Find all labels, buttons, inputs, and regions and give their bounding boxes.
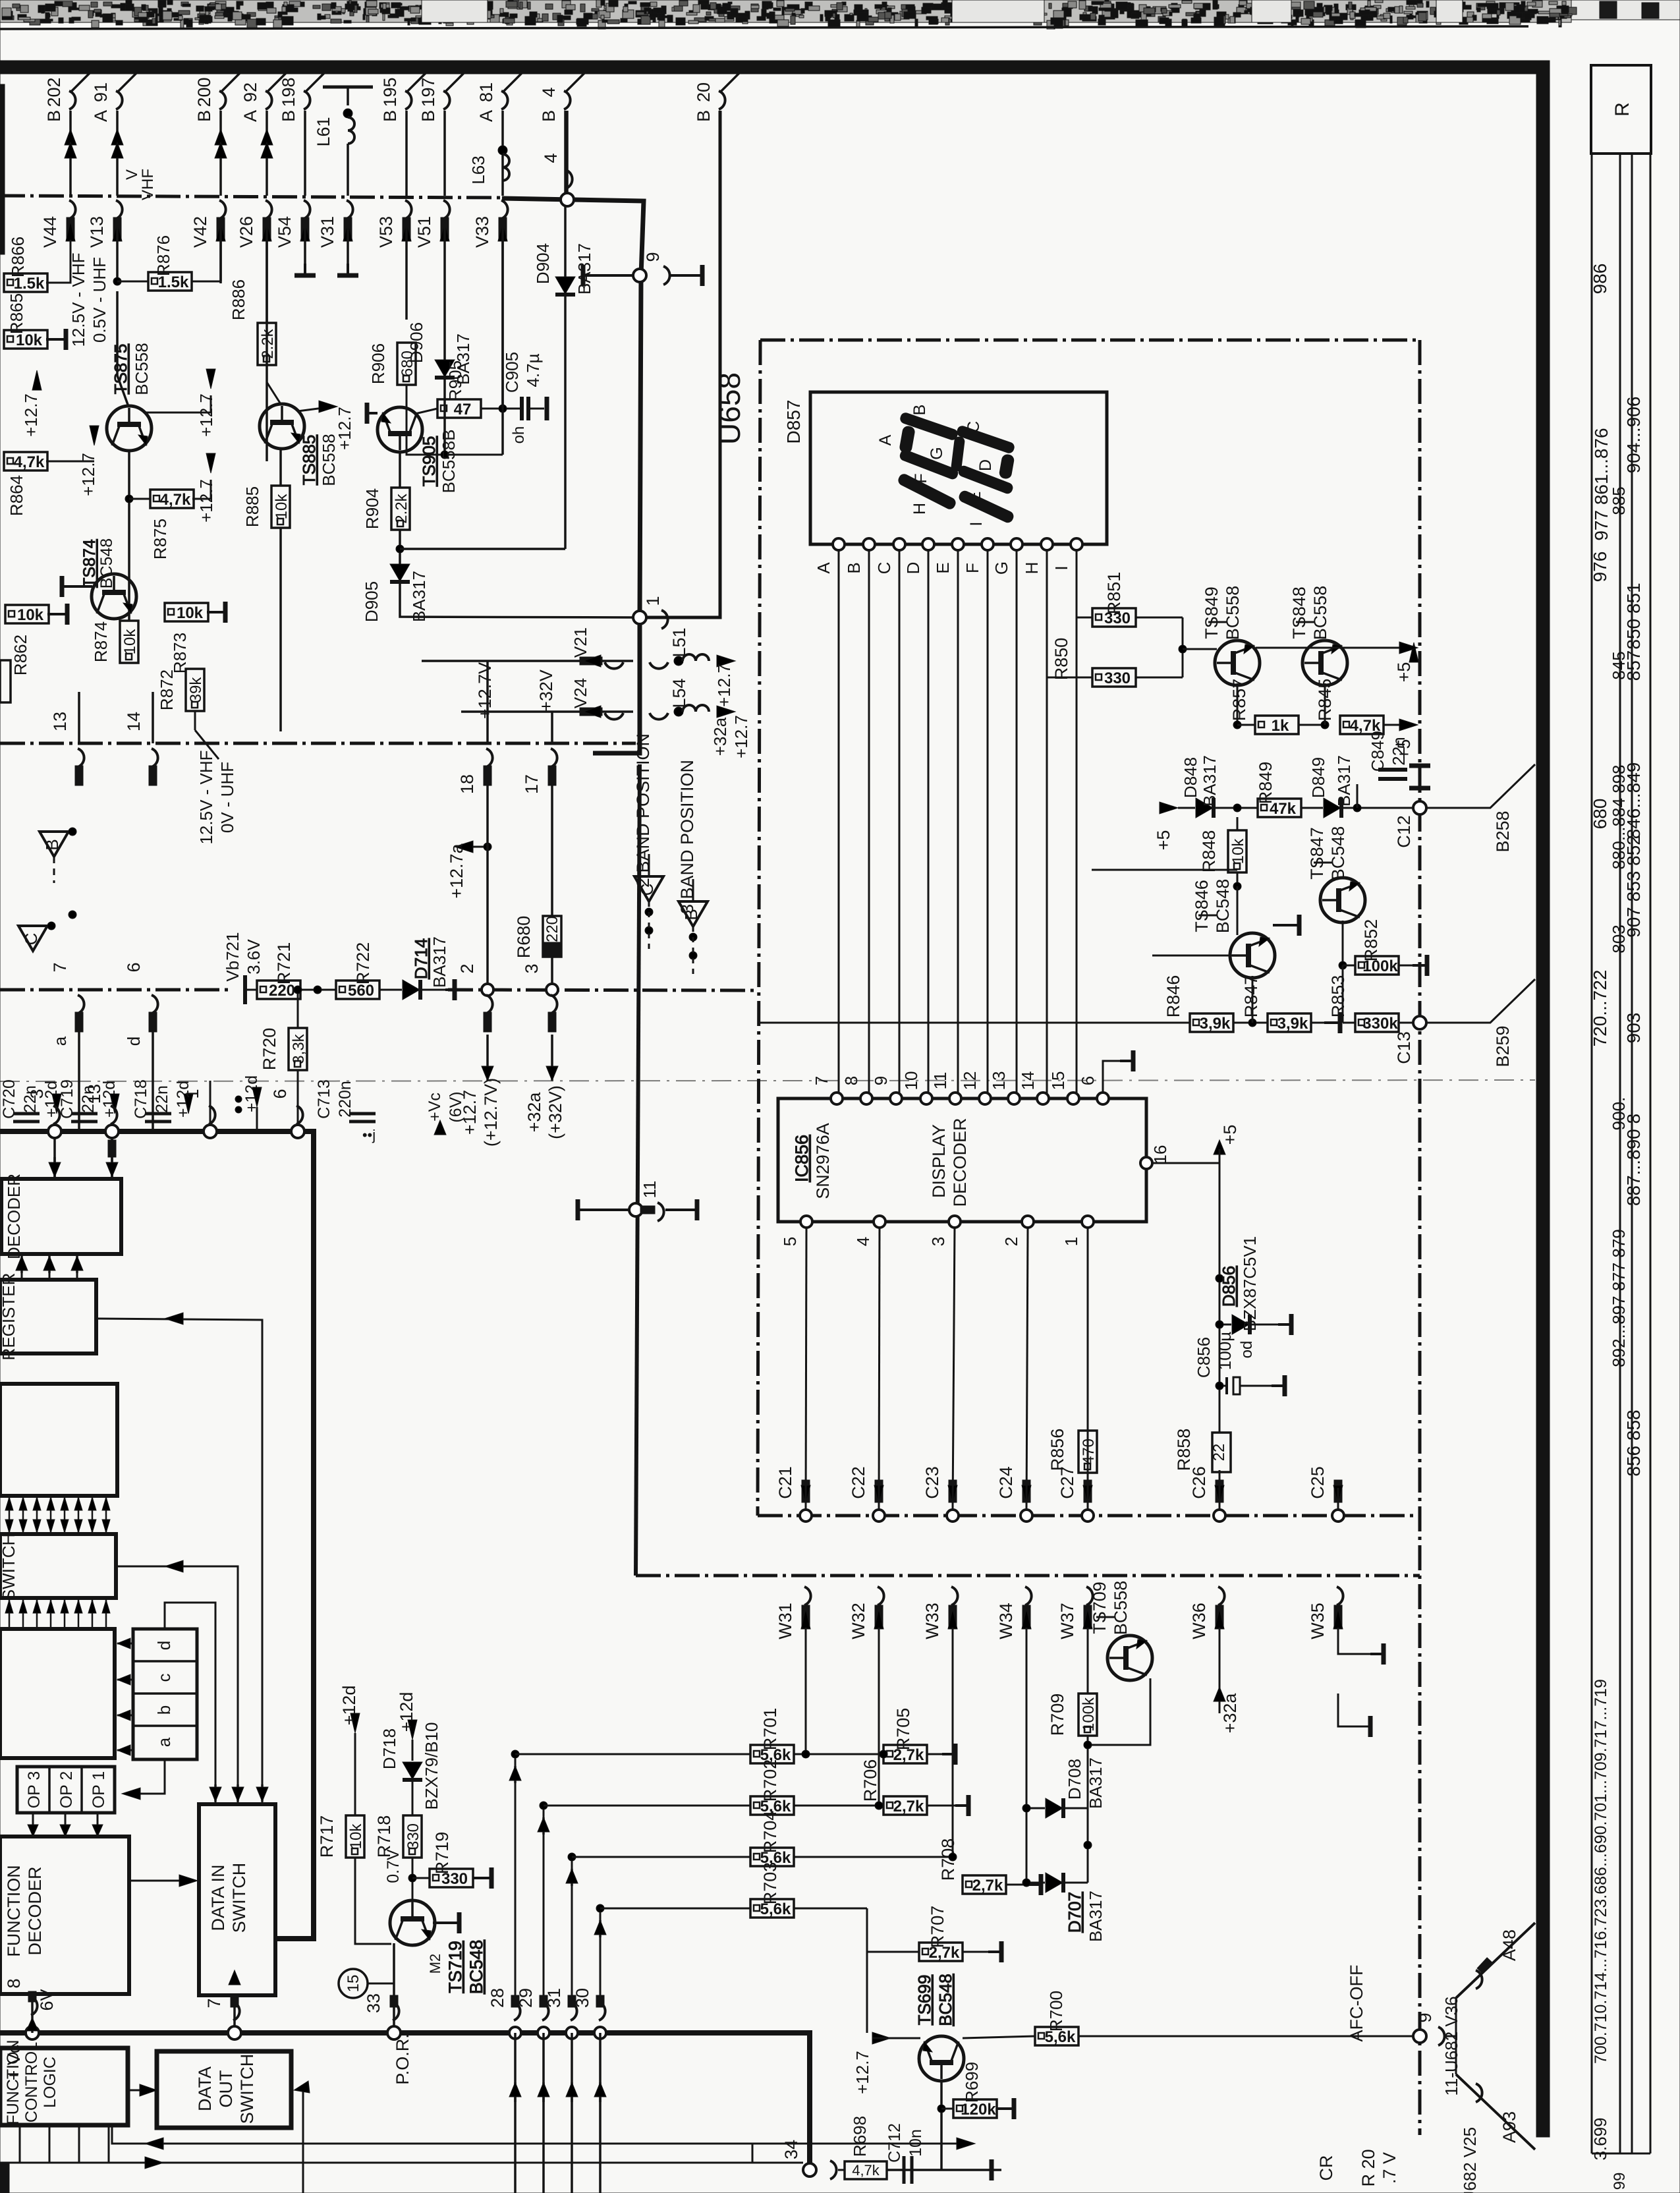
svg-text:TS849: TS849 — [1202, 586, 1221, 639]
svg-text:DATA: DATA — [195, 2066, 215, 2111]
svg-text:4: 4 — [853, 1237, 873, 1246]
connector B 202 — [70, 70, 93, 92]
svg-text:A: A — [91, 110, 111, 122]
block B — [0, 1629, 115, 1758]
R905 47 — [415, 409, 437, 414]
34 connector — [803, 2163, 816, 2177]
svg-text:+12.7V: +12.7V — [475, 662, 495, 719]
R709 100k — [1078, 1694, 1097, 1736]
TS875 BC558 — [116, 291, 119, 376]
R862 10k — [5, 605, 49, 623]
heavy wire from band to U658 — [502, 198, 644, 753]
B20 vertical wire — [646, 111, 720, 617]
svg-text:6: 6 — [1078, 1076, 1098, 1085]
svg-text:B: B — [694, 110, 714, 122]
svg-text:R846: R846 — [1163, 975, 1183, 1018]
junction 13 — [105, 1125, 119, 1138]
svg-text:R705: R705 — [893, 1708, 913, 1751]
svg-text:6: 6 — [270, 1089, 290, 1098]
C856 100u — [1225, 1377, 1228, 1394]
connector 11 — [629, 1203, 642, 1216]
D707 BA317 — [1046, 1873, 1063, 1893]
R849 47k — [1258, 799, 1301, 817]
svg-text:3.6V: 3.6V — [244, 939, 264, 975]
D904 BA317 — [564, 206, 567, 277]
svg-text:V31: V31 — [318, 216, 337, 248]
faint dash line — [0, 1080, 1535, 1081]
svg-text:17: 17 — [522, 774, 542, 794]
svg-text:C24: C24 — [996, 1466, 1016, 1499]
svg-text:B: B — [44, 110, 64, 122]
svg-text:R: R — [1611, 102, 1633, 117]
svg-text:IC856: IC856 — [792, 1135, 812, 1182]
connector V44 — [69, 200, 76, 219]
svg-text:2: 2 — [457, 963, 477, 973]
connector B 20 — [720, 70, 742, 92]
svg-text:R848: R848 — [1199, 830, 1219, 873]
svg-text:OP 2: OP 2 — [57, 1771, 76, 1809]
svg-text:R847: R847 — [1241, 975, 1261, 1018]
connector W33 — [951, 1587, 958, 1605]
TS699 BC548 — [919, 2036, 964, 2081]
connector V51 — [443, 200, 450, 219]
svg-text:TS699: TS699 — [914, 1975, 934, 2026]
svg-text:c: c — [154, 1674, 174, 1682]
svg-text:R721: R721 — [274, 942, 294, 985]
svg-text:V: V — [123, 169, 141, 180]
junction 4 — [561, 193, 574, 206]
svg-text:A: A — [476, 110, 496, 122]
svg-text:846...849: 846...849 — [1623, 762, 1644, 840]
+12.7 feed upper — [32, 370, 42, 390]
svg-text:14: 14 — [1018, 1071, 1038, 1091]
svg-text:+12.7: +12.7 — [21, 393, 41, 437]
svg-text:92: 92 — [240, 82, 260, 102]
OP3 OP2 OP1 row — [17, 1767, 115, 1813]
pin A wire — [833, 538, 845, 550]
svg-text:+12.7: +12.7 — [196, 393, 216, 437]
IC856 SN2976A display decoder — [778, 1098, 1146, 1222]
svg-text:TS719: TS719 — [445, 1941, 465, 1993]
svg-text:W32: W32 — [849, 1603, 868, 1639]
svg-text:L54: L54 — [669, 678, 689, 708]
DOS right wire — [302, 2088, 304, 2193]
svg-text:F: F — [963, 563, 982, 573]
connector 31 — [566, 2027, 578, 2039]
svg-text:R850: R850 — [1051, 638, 1071, 681]
svg-text:904...906: 904...906 — [1623, 397, 1644, 474]
svg-text:R699: R699 — [962, 2062, 982, 2103]
dash-dot band boundary — [0, 196, 502, 198]
svg-text:9: 9 — [871, 1076, 891, 1085]
svg-text:DECODER: DECODER — [25, 1866, 45, 1955]
svg-text:10k: 10k — [121, 629, 139, 655]
P.O.R. bus — [0, 2033, 810, 2168]
TS846 BC548 — [1230, 933, 1275, 978]
svg-text:B: B — [539, 110, 559, 122]
REGISTER L-wire — [96, 1319, 262, 1804]
svg-text:+12d: +12d — [397, 1692, 416, 1732]
svg-text:SWITCH: SWITCH — [0, 1533, 18, 1601]
svg-text:FUNCTION: FUNCTION — [4, 1865, 24, 1956]
svg-text:+5: +5 — [1394, 662, 1414, 683]
R871 39k cut — [0, 660, 11, 702]
svg-text:13: 13 — [50, 712, 70, 731]
svg-text:C: C — [637, 884, 657, 896]
svg-text:R698: R698 — [850, 2116, 870, 2157]
svg-text:7: 7 — [204, 1998, 224, 2008]
svg-text:R876: R876 — [154, 235, 173, 276]
svg-text:2,7k: 2,7k — [972, 1877, 1003, 1894]
IC856 pin 10 — [920, 1093, 932, 1104]
svg-text:Vb721: Vb721 — [223, 932, 242, 981]
svg-text:+32a: +32a — [710, 717, 730, 756]
svg-text:2: 2 — [1001, 1237, 1021, 1246]
IC856 pin 15 — [1067, 1093, 1079, 1104]
R719 330 — [412, 1877, 430, 1879]
svg-text:BZX79/B10: BZX79/B10 — [422, 1723, 441, 1810]
connector V42 — [219, 200, 226, 219]
svg-text:2.2k: 2.2k — [259, 328, 277, 358]
svg-text:C23: C23 — [922, 1466, 942, 1499]
svg-text:3.699: 3.699 — [1590, 2117, 1610, 2160]
arrows abcd to block B — [117, 1643, 133, 1645]
TS709 BC558 — [1107, 1636, 1152, 1680]
svg-text:V53: V53 — [376, 216, 396, 248]
R680 220 — [543, 916, 561, 957]
svg-text:TS709: TS709 — [1090, 1581, 1109, 1634]
svg-text:A93: A93 — [1499, 2111, 1519, 2143]
svg-text:3: 3 — [928, 1237, 948, 1246]
svg-text:R875: R875 — [150, 519, 170, 559]
svg-text:R886: R886 — [229, 279, 248, 320]
junction 9 with tcaps — [633, 269, 646, 282]
svg-text:AFC-OFF: AFC-OFF — [1347, 1965, 1366, 2042]
V21 L51 row — [422, 660, 633, 662]
svg-text:720...722: 720...722 — [1590, 970, 1610, 1047]
svg-text:TS905: TS905 — [419, 436, 439, 487]
svg-text:+12d: +12d — [339, 1686, 359, 1726]
svg-text:R707: R707 — [928, 1906, 947, 1949]
svg-text:B: B — [380, 110, 400, 122]
IC856 pin 8 — [860, 1093, 872, 1104]
TS719 BC548 M2 — [390, 1900, 435, 1945]
svg-text:D904: D904 — [533, 243, 553, 284]
svg-text:803: 803 — [1609, 925, 1629, 953]
svg-text:11: 11 — [640, 1181, 659, 1199]
svg-text:REGISTER: REGISTER — [0, 1273, 18, 1361]
svg-text:••j: ••j — [362, 1127, 376, 1143]
svg-text:220: 220 — [544, 916, 561, 942]
IC856 pin 2 — [1022, 1216, 1034, 1228]
svg-text:BA317: BA317 — [1200, 755, 1219, 807]
svg-text:DATA IN: DATA IN — [208, 1864, 228, 1931]
IC856 pin 16 — [1140, 1157, 1152, 1169]
triangle C — [18, 926, 47, 951]
connector B 4 — [565, 70, 588, 92]
svg-text:BA317: BA317 — [1086, 1891, 1106, 1942]
svg-text:V54: V54 — [275, 216, 294, 248]
R708 2.7k — [963, 1875, 1006, 1894]
svg-text:700.710.714...716.723.686...69: 700.710.714...716.723.686...690.701...70… — [1592, 1679, 1610, 2064]
svg-text:OP 1: OP 1 — [90, 1771, 108, 1809]
TS848 BC558 — [1302, 641, 1347, 685]
svg-text:b: b — [154, 1705, 174, 1715]
svg-text:16: 16 — [1150, 1145, 1170, 1164]
svg-text:4,7k: 4,7k — [160, 491, 191, 509]
svg-text:31: 31 — [544, 1988, 564, 2008]
svg-text:330: 330 — [405, 1823, 422, 1850]
svg-text:D857: D857 — [783, 400, 804, 444]
svg-text:28: 28 — [488, 1988, 507, 2008]
TS849 BC558 — [1215, 641, 1260, 685]
svg-text:CR: CR — [1316, 2155, 1336, 2181]
svg-text:6: 6 — [124, 962, 144, 972]
svg-text:330: 330 — [1104, 669, 1131, 687]
svg-text:+Vc: +Vc — [426, 1093, 444, 1122]
IC856 pin 13 — [1008, 1093, 1020, 1104]
V24 L54 row — [461, 710, 633, 713]
connector V13 — [116, 200, 123, 219]
hooks 2/3 on y1502 — [482, 984, 493, 996]
svg-text:+32a: +32a — [524, 1092, 544, 1133]
R718 330 — [403, 1815, 422, 1858]
svg-text:7: 7 — [812, 1076, 831, 1085]
9 connector right — [1413, 2030, 1426, 2043]
svg-text:2.2k: 2.2k — [393, 493, 410, 523]
connector 13 — [78, 749, 84, 767]
R886 2.2k — [258, 323, 276, 365]
connector W34 — [1025, 1587, 1032, 1605]
+5 rail top — [1237, 627, 1238, 642]
IC856 pin 1 — [1082, 1216, 1094, 1228]
R865 10k — [4, 330, 47, 349]
svg-text:SWITCH: SWITCH — [229, 1863, 249, 1933]
junction 1 — [633, 611, 646, 624]
svg-text:D: D — [976, 459, 995, 471]
svg-text:R853: R853 — [1328, 975, 1348, 1018]
R706 2.7k — [883, 1796, 927, 1815]
svg-text:V26: V26 — [237, 216, 256, 248]
svg-text:680: 680 — [1590, 799, 1610, 830]
svg-text:A: A — [240, 110, 260, 122]
IC856 pin 7 — [831, 1093, 843, 1104]
svg-text:B: B — [681, 909, 701, 920]
hooks 18/17 — [486, 749, 493, 767]
R704 5.6k row — [750, 1848, 794, 1866]
svg-text:81: 81 — [476, 82, 496, 102]
svg-text:C713: C713 — [315, 1079, 333, 1119]
svg-text:33: 33 — [364, 1993, 383, 2013]
8 hook and +Vc 6V left — [26, 2026, 39, 2039]
IC856 pin 4 — [874, 1216, 885, 1228]
svg-text:DECODER: DECODER — [950, 1118, 970, 1207]
svg-text:856 858: 856 858 — [1623, 1410, 1644, 1476]
svg-text:V24: V24 — [571, 678, 590, 708]
svg-text:BC548: BC548 — [936, 1974, 955, 2026]
+12.7a arrow — [455, 841, 473, 853]
+5 into D848 — [1160, 802, 1178, 814]
R864 4.7k — [4, 452, 47, 470]
wires TS846-849 cluster — [1256, 683, 1258, 705]
svg-text:976: 976 — [1590, 552, 1610, 583]
svg-text:OUT: OUT — [216, 2070, 236, 2108]
svg-text:11: 11 — [930, 1072, 950, 1090]
svg-text:W31: W31 — [775, 1603, 795, 1639]
svg-text:R873: R873 — [170, 633, 190, 673]
svg-text:C12: C12 — [1394, 815, 1414, 848]
connector W35 — [1337, 1587, 1343, 1605]
R866 1.5k — [4, 273, 47, 292]
svg-text:(+32V): (+32V) — [546, 1085, 565, 1139]
svg-text:C856: C856 — [1194, 1337, 1214, 1378]
band dash-dot y1128 — [0, 742, 636, 745]
connector A 81 — [503, 70, 525, 92]
svg-text:14: 14 — [124, 712, 144, 731]
svg-text:9: 9 — [643, 252, 663, 262]
R852 100k — [1355, 956, 1399, 975]
svg-text:R720: R720 — [260, 1028, 279, 1071]
svg-text:R703: R703 — [760, 1862, 780, 1905]
svg-text:A: A — [876, 434, 895, 445]
svg-text:39k: 39k — [187, 677, 205, 703]
svg-text:G: G — [928, 447, 946, 459]
connector B 197 — [445, 70, 467, 92]
svg-text:R706: R706 — [860, 1759, 880, 1802]
svg-text:34: 34 — [781, 2140, 801, 2159]
pin16 wire — [1152, 1162, 1219, 1164]
R885 10k — [279, 449, 282, 486]
svg-text:a: a — [50, 1036, 70, 1046]
svg-text:10: 10 — [901, 1071, 921, 1091]
svg-text:330k: 330k — [1362, 1015, 1398, 1033]
svg-text:BZX87C5V1: BZX87C5V1 — [1240, 1236, 1260, 1332]
connector V26 — [266, 200, 272, 219]
svg-text:R862: R862 — [11, 635, 30, 675]
svg-text:BC558: BC558 — [132, 343, 152, 395]
svg-text:V13: V13 — [87, 216, 107, 248]
svg-text:DECODER: DECODER — [4, 1174, 24, 1259]
junction 1 — [204, 1125, 217, 1138]
svg-text:C712: C712 — [885, 2123, 904, 2163]
svg-text:B: B — [279, 110, 298, 122]
svg-text:R865: R865 — [7, 293, 26, 334]
svg-text:197: 197 — [418, 77, 438, 107]
svg-text:R851: R851 — [1104, 572, 1124, 615]
svg-text:2,7k: 2,7k — [893, 1798, 924, 1815]
L51 — [650, 662, 668, 669]
connector 14 — [152, 749, 158, 767]
svg-text:99: 99 — [1611, 2173, 1629, 2190]
heavy right border bar — [1536, 61, 1550, 2137]
svg-text:P.O.R.: P.O.R. — [393, 2034, 412, 2085]
C849 22n — [1357, 784, 1358, 808]
svg-text:R885: R885 — [242, 486, 262, 527]
svg-text:+12.7: +12.7 — [731, 715, 751, 758]
svg-text:D: D — [903, 562, 923, 575]
R875 4.7k — [129, 498, 150, 500]
svg-text:+32V: +32V — [536, 669, 556, 712]
svg-text:TS875: TS875 — [111, 344, 130, 395]
svg-text:892...897 877 879: 892...897 877 879 — [1609, 1229, 1629, 1367]
svg-text:903: 903 — [1623, 1013, 1644, 1044]
svg-text:22n: 22n — [1389, 737, 1409, 765]
svg-text:986: 986 — [1590, 264, 1610, 295]
R701 5.6k row — [750, 1745, 794, 1763]
svg-text:A48: A48 — [1499, 1929, 1519, 1961]
svg-text:10k: 10k — [17, 606, 44, 624]
svg-text:+12.7: +12.7 — [460, 1090, 480, 1135]
R705 2.7k — [883, 1745, 927, 1763]
TS847 BC548 — [1320, 878, 1365, 923]
TS885 BC558 — [260, 404, 304, 449]
connector 29 — [538, 2027, 549, 2039]
svg-text:10k: 10k — [347, 1823, 365, 1850]
connector B 195 — [406, 70, 429, 92]
D718 BZX79/B10 — [408, 1720, 417, 1740]
connector W37 — [1086, 1587, 1093, 1605]
15 circle — [339, 1969, 368, 1998]
svg-text:BA317: BA317 — [574, 243, 594, 295]
svg-text:G: G — [992, 561, 1011, 575]
svg-text:977 861...876: 977 861...876 — [1591, 428, 1611, 540]
svg-text:91: 91 — [91, 82, 111, 102]
svg-text:4,7k: 4,7k — [852, 2162, 880, 2179]
svg-text:10k: 10k — [177, 604, 204, 622]
svg-text:C25: C25 — [1308, 1466, 1328, 1499]
arrows bus into DECODER — [53, 1137, 56, 1179]
connector C23 — [947, 1510, 959, 1522]
svg-text:12: 12 — [960, 1071, 980, 1091]
svg-text:W35: W35 — [1308, 1603, 1328, 1639]
svg-text:195: 195 — [380, 77, 400, 107]
svg-text:BA317: BA317 — [409, 571, 429, 622]
svg-text:15: 15 — [1048, 1071, 1068, 1091]
connector 6 — [152, 995, 158, 1013]
svg-text:+5: +5 — [1220, 1125, 1240, 1145]
svg-text:200: 200 — [194, 77, 214, 107]
svg-text:B: B — [910, 405, 929, 416]
junction 6 — [291, 1125, 304, 1138]
connector C24 — [1021, 1510, 1032, 1522]
IC856 pin 5 — [800, 1216, 812, 1228]
svg-text:W34: W34 — [996, 1603, 1016, 1639]
svg-text:1: 1 — [643, 596, 663, 606]
bottom long wires — [112, 2125, 752, 2163]
arrows REGISTER to DECODER — [21, 1254, 23, 1280]
svg-text:BC558: BC558 — [1223, 586, 1243, 641]
svg-text:100k: 100k — [1080, 1697, 1098, 1732]
svg-text:C: C — [874, 562, 894, 575]
R845 4.7k — [1340, 716, 1384, 734]
abcd top L-wire — [165, 1603, 215, 1804]
svg-text:845: 845 — [1609, 651, 1629, 679]
FUNCTION CONTROL LOGIC box — [0, 2048, 128, 2125]
DECODER box — [1, 1179, 121, 1254]
pin F wire — [982, 538, 994, 550]
svg-text:.7 V: .7 V — [1380, 2152, 1399, 2184]
svg-text:4: 4 — [541, 153, 561, 163]
+12.7 feed — [872, 2032, 891, 2044]
R858 22 — [1212, 1433, 1231, 1472]
svg-text:E: E — [933, 562, 953, 573]
svg-text:R702: R702 — [760, 1759, 780, 1802]
A48 diagonal — [1456, 1923, 1535, 1998]
svg-text:R722: R722 — [353, 942, 373, 985]
svg-text:E: E — [966, 492, 984, 503]
IC856 pin 14 — [1037, 1093, 1049, 1104]
svg-text:3: 3 — [522, 963, 542, 973]
